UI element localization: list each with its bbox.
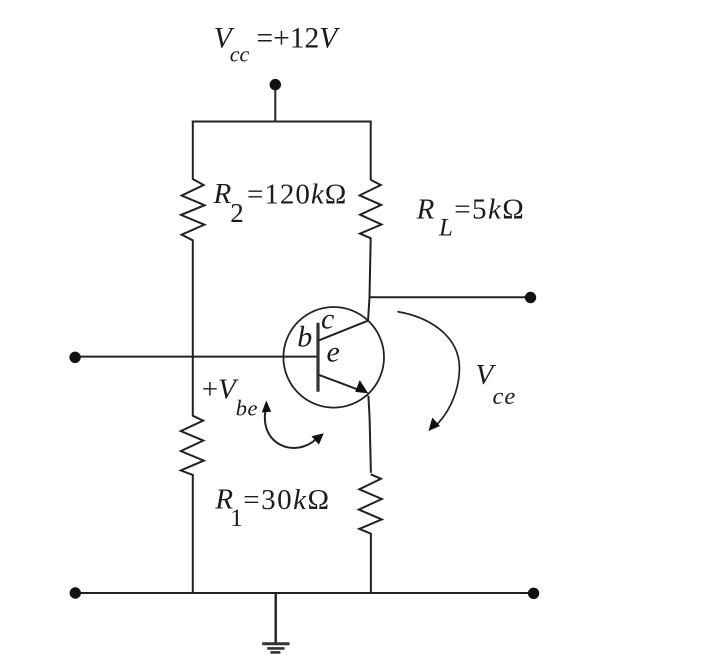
wire collector column	[368, 238, 371, 321]
svg-text:=120kΩ: =120kΩ	[247, 178, 347, 210]
label Vce	[476, 359, 517, 410]
transistor Q1 base bar	[316, 323, 319, 392]
node bottom-right dot	[528, 588, 539, 599]
label RL=5k	[416, 193, 526, 241]
resistor RL	[360, 180, 382, 238]
wire left column lower	[192, 474, 194, 593]
wire emitter lower	[370, 533, 372, 593]
node input dot	[69, 352, 80, 363]
transistor Q1 collector lead	[319, 321, 368, 341]
transistor Q1 emitter arrowhead	[355, 380, 368, 393]
svg-text:be: be	[236, 396, 258, 421]
label +Vbe	[202, 373, 258, 420]
node output dot	[525, 292, 536, 303]
arrow Vce arc	[397, 312, 459, 431]
label R2=120k	[213, 178, 348, 228]
svg-text:2: 2	[230, 198, 244, 228]
svg-text:b: b	[297, 321, 312, 354]
arrow Vbe arc	[262, 401, 324, 448]
svg-text:ce: ce	[493, 383, 517, 410]
resistor R2	[181, 179, 205, 240]
label R1=30k	[214, 483, 330, 531]
wire top rail	[192, 121, 372, 123]
label Vcc=+12V	[214, 22, 340, 66]
wire left column upper	[192, 121, 194, 181]
node bottom-left dot	[70, 587, 81, 598]
resistor RE	[359, 474, 382, 533]
ground	[262, 644, 289, 653]
svg-text:=30kΩ: =30kΩ	[243, 484, 330, 516]
svg-text:R: R	[213, 178, 232, 210]
svg-text:cc: cc	[230, 41, 250, 66]
transistor Q1 circle	[283, 307, 384, 408]
node Vcc dot	[270, 79, 281, 90]
resistor R1	[181, 416, 204, 475]
svg-text:R: R	[416, 193, 435, 225]
svg-text:=+12V: =+12V	[257, 22, 341, 54]
wire ground stub	[275, 592, 277, 644]
wire Vcc stub	[274, 89, 276, 123]
svg-text:1: 1	[230, 505, 243, 532]
wire emitter column	[368, 396, 371, 473]
svg-text:e: e	[327, 335, 340, 368]
svg-text:+V: +V	[202, 373, 239, 405]
wire output	[370, 296, 528, 298]
svg-text:c: c	[321, 303, 334, 336]
wire left column middle	[192, 240, 194, 417]
wire bottom rail	[77, 592, 531, 594]
svg-text:=5kΩ: =5kΩ	[454, 193, 525, 225]
transistor Q1 emitter lead	[319, 375, 360, 390]
svg-text:L: L	[438, 214, 453, 241]
wire right column upper	[370, 121, 372, 181]
wire base input	[79, 356, 318, 358]
